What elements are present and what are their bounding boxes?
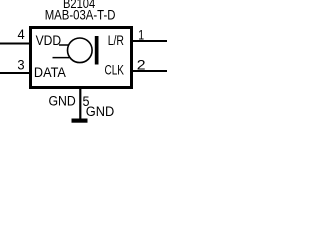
svg-text:MAB-03A-T-D: MAB-03A-T-D — [45, 8, 116, 24]
svg-text:4: 4 — [18, 27, 25, 43]
svg-text:2: 2 — [137, 58, 146, 74]
svg-text:3: 3 — [17, 57, 24, 73]
svg-text:GND: GND — [49, 94, 76, 110]
svg-text:1: 1 — [138, 27, 144, 43]
svg-text:GND: GND — [86, 104, 115, 120]
svg-text:CLK: CLK — [105, 63, 125, 79]
svg-text:VDD: VDD — [36, 33, 62, 49]
svg-text:L/R: L/R — [108, 33, 124, 49]
svg-text:DATA: DATA — [34, 65, 66, 81]
svg-text:5: 5 — [83, 94, 90, 110]
